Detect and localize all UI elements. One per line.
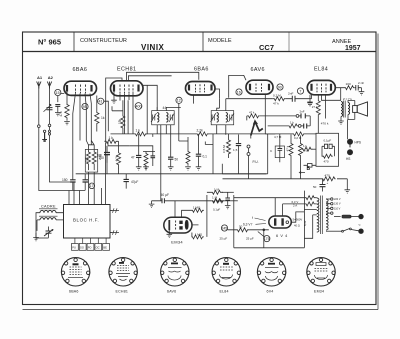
tube V2 ECH81 envelope (111, 81, 144, 96)
svg-text:1k: 1k (101, 116, 105, 120)
IFT1 wires (157, 107, 181, 201)
svg-text:HS: HS (346, 157, 350, 161)
V2 plate link to IFT1 (143, 85, 157, 110)
svg-text:ECH81: ECH81 (116, 289, 129, 293)
resistor 47k det (273, 93, 286, 105)
IFT1 trimmer L (151, 113, 157, 122)
B+ top bus (127, 72, 199, 81)
svg-text:P.U.: P.U. (253, 160, 259, 164)
resistor 4.7k (115, 146, 121, 169)
svg-text:100: 100 (97, 154, 103, 158)
antenna A1 (37, 75, 86, 205)
V4 grid box (229, 75, 246, 97)
IFT2 trimmer L (211, 113, 217, 122)
V5 electrodes (312, 84, 332, 93)
svg-text:0,2 M: 0,2 M (273, 93, 281, 97)
svg-text:ECH81: ECH81 (117, 67, 136, 73)
B resistor 470 (322, 174, 336, 181)
resistor R1 4.7k (59, 105, 69, 121)
wire from circle41 (86, 101, 108, 140)
OT core (344, 101, 346, 118)
svg-text:130 V: 130 V (334, 203, 341, 206)
antenna A2 (44, 75, 75, 205)
svg-text:0,1µF: 0,1µF (324, 139, 332, 143)
outer bottom line (23, 309, 379, 311)
resistor 1M bottom (192, 232, 204, 239)
primary taps (326, 198, 341, 215)
bus AGC y134 (111, 133, 226, 135)
svg-text:1 k: 1 k (290, 121, 294, 125)
gnd under V2 (111, 100, 117, 104)
coil 1 (40, 210, 56, 212)
resistor 0.5M v (299, 140, 309, 158)
bus 134 right (226, 133, 316, 135)
lower bus (223, 178, 323, 180)
svg-text:BE: BE (103, 245, 107, 249)
bloc box (64, 205, 111, 239)
tube V1 6BA6 envelope (64, 81, 97, 95)
gnd bus y173.8 (76, 173, 267, 175)
cap to gnd (55, 105, 61, 116)
svg-text:175: 175 (264, 237, 270, 241)
EM34 grid wire (174, 201, 176, 217)
header divider 3 (288, 32, 290, 52)
gnd bus right (222, 134, 267, 174)
svg-text:GO: GO (80, 245, 84, 249)
resistor 2.2k inline (196, 128, 209, 136)
cap 50 (168, 125, 178, 170)
cathode RC (307, 95, 318, 109)
circle 90 (277, 84, 283, 90)
PU jacks (247, 145, 259, 164)
svg-text:PO: PO (88, 245, 92, 249)
svg-text:EL84: EL84 (220, 289, 229, 293)
cap on A2 (47, 108, 53, 110)
svg-text:6BA6: 6BA6 (73, 67, 88, 73)
circle 12 (176, 97, 182, 103)
svg-text:0,1: 0,1 (203, 155, 208, 159)
osc line (112, 106, 123, 111)
osc resistor 15k (118, 100, 125, 134)
svg-text:50 µF: 50 µF (161, 193, 170, 197)
cap C 75 (83, 174, 95, 190)
svg-text:15: 15 (56, 91, 60, 95)
wire A2 down (50, 87, 75, 205)
svg-text:f: f (252, 216, 253, 220)
wire grid V1 (58, 92, 67, 106)
wire to gnd (337, 179, 350, 193)
tone box (316, 133, 339, 166)
svg-text:~: ~ (358, 223, 361, 228)
pot resistor (222, 140, 231, 158)
svg-text:0,1µF: 0,1µF (213, 208, 220, 212)
wire mid (107, 134, 155, 174)
resistor 490 (85, 149, 91, 170)
svg-text:50: 50 (313, 185, 317, 189)
resistor 1k horizontal (105, 136, 119, 146)
TR core (321, 196, 323, 235)
IFT1 coil R (166, 113, 168, 123)
tone input resistor (302, 144, 316, 151)
det line (226, 98, 273, 100)
socket EM34 (307, 258, 336, 294)
cathode takeoff (291, 212, 304, 222)
svg-text:7: 7 (299, 89, 301, 93)
svg-text:+: + (327, 181, 329, 185)
socket ECH81 (109, 258, 138, 294)
svg-text:N° 965: N° 965 (38, 38, 61, 47)
svg-text:OC: OC (96, 245, 100, 249)
svg-text:A1: A1 (37, 75, 43, 80)
EM34 gnd (167, 230, 173, 237)
header divider 1 (73, 32, 75, 52)
cap 100uF (99, 146, 111, 163)
socket EL84 (212, 258, 241, 294)
svg-text:16: 16 (237, 90, 241, 94)
IFT2 box (211, 111, 234, 125)
V2 electrodes (114, 85, 139, 94)
OT secondary (348, 103, 350, 115)
coil 2 (40, 218, 56, 220)
terminal A1 (38, 125, 41, 128)
output transformer (338, 97, 355, 147)
svg-text:220 V: 220 V (334, 198, 341, 201)
svg-text:47k: 47k (59, 111, 63, 117)
svg-text:6BA6: 6BA6 (69, 289, 79, 293)
HV surge R1 (305, 196, 317, 200)
svg-text:6,3V: 6,3V (303, 220, 307, 226)
svg-text:90: 90 (278, 85, 282, 89)
circle 400 (135, 103, 142, 110)
svg-text:47: 47 (131, 156, 135, 160)
outer right line (377, 34, 379, 310)
OT wires/gnd (338, 117, 344, 125)
wires to bloc (89, 142, 106, 205)
svg-text:2 A: 2 A (293, 204, 297, 208)
link jumper (42, 130, 47, 141)
ground (55, 113, 61, 116)
svg-text:HPS: HPS (355, 141, 362, 145)
svg-text:PU: PU (72, 245, 76, 249)
svg-text:1 k: 1 k (136, 128, 141, 132)
drops to lower bus (249, 156, 301, 179)
circled pin numbers (55, 84, 304, 110)
screen resistor R2 (95, 96, 105, 132)
OT primary (341, 102, 343, 117)
resistor under V3 (179, 104, 191, 171)
resistor 47000 (92, 149, 102, 170)
screen wire (322, 95, 342, 101)
svg-text:1 k: 1 k (109, 136, 114, 140)
circle 41 (98, 98, 104, 104)
svg-text:50µF: 50µF (217, 199, 224, 203)
osc top link (128, 76, 171, 81)
svg-text:44: 44 (163, 106, 167, 110)
svg-text:6 V 4: 6 V 4 (276, 234, 288, 238)
line y146 (108, 141, 129, 146)
mains dot 2 (359, 229, 364, 234)
V3 electrodes (189, 84, 212, 92)
wires cluster (265, 134, 300, 142)
EM34 internals (169, 220, 188, 230)
svg-text:47 k: 47 k (249, 111, 255, 115)
cap 50uF (149, 193, 212, 207)
IFT1 trimmer R (169, 113, 175, 122)
AVC resistor 2 (212, 199, 222, 212)
ground R1 (64, 122, 70, 125)
socket 6V4 (257, 258, 286, 294)
V1 pin wires down (73, 94, 94, 176)
svg-text:1957: 1957 (345, 45, 361, 52)
V3 out wire (215, 89, 220, 99)
svg-text:6BA6: 6BA6 (194, 67, 209, 73)
6V4 internals (275, 218, 288, 225)
cap small (151, 152, 156, 167)
svg-text:110 V: 110 V (334, 207, 341, 210)
HV line 2 (283, 203, 305, 205)
svg-text:EM34: EM34 (314, 289, 324, 293)
svg-text:CC7: CC7 (259, 43, 274, 52)
IFT2 coil R (226, 113, 228, 123)
row A coupling (247, 109, 310, 120)
HS jack (346, 150, 353, 161)
V5 grid drop (311, 95, 313, 99)
row B coupling (268, 116, 311, 129)
svg-text:A2: A2 (48, 75, 54, 80)
plate to OT (340, 88, 342, 101)
IFT2 coil L (217, 113, 219, 123)
svg-text:CADRE: CADRE (41, 205, 56, 209)
svg-text:EL84: EL84 (314, 66, 328, 72)
f pointers (243, 216, 266, 226)
svg-text:6AV6: 6AV6 (167, 289, 176, 293)
header bottom rule (23, 51, 377, 53)
50uF cap (313, 179, 329, 192)
svg-text:17: 17 (90, 184, 94, 188)
svg-text:EM34: EM34 (171, 240, 183, 245)
rectifier 6V4 (269, 216, 292, 228)
svg-text:47 k: 47 k (286, 145, 290, 151)
socket 6BA6 (61, 258, 90, 294)
grid box V2 (105, 78, 123, 141)
V2 pins down (114, 85, 147, 134)
svg-text:1 M: 1 M (214, 187, 220, 191)
switch squares (72, 238, 110, 250)
circle 245 (221, 225, 227, 231)
svg-text:25 µF: 25 µF (220, 237, 228, 241)
svg-text:4,7k: 4,7k (115, 155, 119, 161)
cap 100 (97, 146, 110, 162)
svg-text:15k: 15k (118, 118, 122, 124)
TR primary winding (326, 199, 328, 230)
svg-text:6V4: 6V4 (267, 289, 274, 293)
tube internals (67, 84, 331, 94)
top cap to gnd (355, 81, 364, 95)
IFT1 box (152, 111, 175, 125)
cap 47 (131, 134, 142, 170)
svg-text:12: 12 (177, 99, 181, 103)
HV line 1 (234, 197, 305, 199)
svg-text:2nF: 2nF (288, 92, 293, 96)
circle 7 (297, 88, 303, 94)
box shield (85, 149, 97, 172)
svg-text:41: 41 (99, 100, 103, 104)
EM34 envelope (164, 217, 192, 233)
cap 50uF to gnd (217, 192, 231, 209)
cond box C (270, 141, 285, 162)
grid leak 470k (316, 95, 329, 134)
svg-text:2 nF: 2 nF (358, 81, 364, 85)
wire A1 down (39, 87, 85, 205)
svg-text:6AV6: 6AV6 (251, 67, 265, 73)
plate wires up (275, 198, 282, 216)
svg-text:0,5 M: 0,5 M (222, 145, 226, 153)
trimmer cap (44, 227, 53, 238)
filter resistor (228, 225, 250, 232)
circle 95 (82, 103, 88, 109)
cap C 150 (62, 175, 76, 190)
svg-text:BLOC H.F.: BLOC H.F. (73, 218, 99, 223)
tube V3 6BA6 envelope (186, 82, 216, 96)
resistor 470k (143, 152, 149, 171)
IFT2 wires (217, 99, 226, 135)
resistor 47k v (286, 142, 294, 159)
svg-text:4,7 M: 4,7 M (274, 135, 282, 139)
svg-text:40 Ω: 40 Ω (294, 224, 300, 228)
svg-text:6,3 V f: 6,3 V f (243, 222, 252, 226)
svg-text:VINIX: VINIX (141, 43, 165, 52)
svg-text:S=360V: S=360V (293, 218, 303, 222)
volume pot arrow (229, 121, 263, 140)
svg-text:47µF: 47µF (131, 180, 138, 184)
resistor 100 top right (335, 82, 355, 90)
svg-text:CONSTRUCTEUR: CONSTRUCTEUR (80, 38, 127, 44)
wire to 6V4 (250, 229, 269, 231)
V4 electrodes (250, 84, 269, 92)
svg-text:400: 400 (136, 104, 142, 108)
HPS jack (347, 139, 361, 147)
cap 0.1 under V3 (196, 134, 207, 170)
socket 6AV6 (161, 258, 190, 294)
ground cadre (33, 233, 39, 241)
cap 47uF (124, 174, 139, 189)
sheet border (23, 32, 377, 305)
svg-text:2nF: 2nF (300, 109, 305, 113)
resistor 1M top (182, 205, 204, 217)
svg-text:MODELE: MODELE (208, 38, 232, 44)
svg-text:245: 245 (222, 226, 228, 230)
svg-text:47 k: 47 k (273, 102, 279, 106)
wire pot to V4 (251, 94, 265, 138)
V1 electrodes (67, 85, 92, 94)
V3 cathode res (194, 95, 214, 173)
svg-text:100: 100 (346, 82, 351, 86)
svg-text:50: 50 (175, 158, 179, 162)
AVC resistor inline (212, 196, 225, 203)
svg-text:100: 100 (85, 156, 89, 162)
heater box (234, 191, 305, 248)
speaker (353, 101, 368, 120)
B+ label (300, 166, 311, 174)
core bars (39, 209, 58, 216)
svg-text:1,5: 1,5 (233, 148, 238, 152)
header divider 2 (202, 32, 204, 52)
tube V4 6AV6 envelope (246, 80, 273, 94)
svg-text:150: 150 (62, 178, 68, 182)
svg-text:2,2k: 2,2k (197, 128, 204, 132)
feed resistor (207, 187, 234, 194)
IFT1 coil L (157, 113, 159, 123)
HV surge R2 (305, 202, 317, 206)
mains dot 1 (359, 214, 364, 219)
tube V5 EL84 envelope (307, 80, 335, 94)
svg-text:25 µF: 25 µF (246, 237, 254, 241)
svg-text:1 k: 1 k (303, 144, 308, 148)
fuse (334, 215, 359, 218)
circle 15 (55, 89, 61, 95)
cap D (304, 164, 317, 168)
heater taps (264, 209, 317, 247)
svg-text:470: 470 (324, 160, 329, 164)
svg-text:0,2 M: 0,2 M (294, 136, 302, 140)
switch (326, 228, 359, 232)
vertical join (192, 195, 207, 237)
cadre wires (36, 213, 64, 239)
svg-text:470: 470 (325, 174, 330, 178)
coupling cap (286, 92, 312, 102)
svg-text:470 k: 470 k (321, 122, 329, 126)
terminals right (110, 208, 119, 213)
cap at pot (233, 135, 241, 174)
osc wire2 (127, 100, 129, 134)
circle 16 (236, 89, 242, 95)
IFT2 trimmer R (229, 113, 235, 122)
circle 175 (258, 232, 270, 242)
TR secondary winding (317, 198, 319, 232)
resistor 1k inline (134, 128, 147, 136)
